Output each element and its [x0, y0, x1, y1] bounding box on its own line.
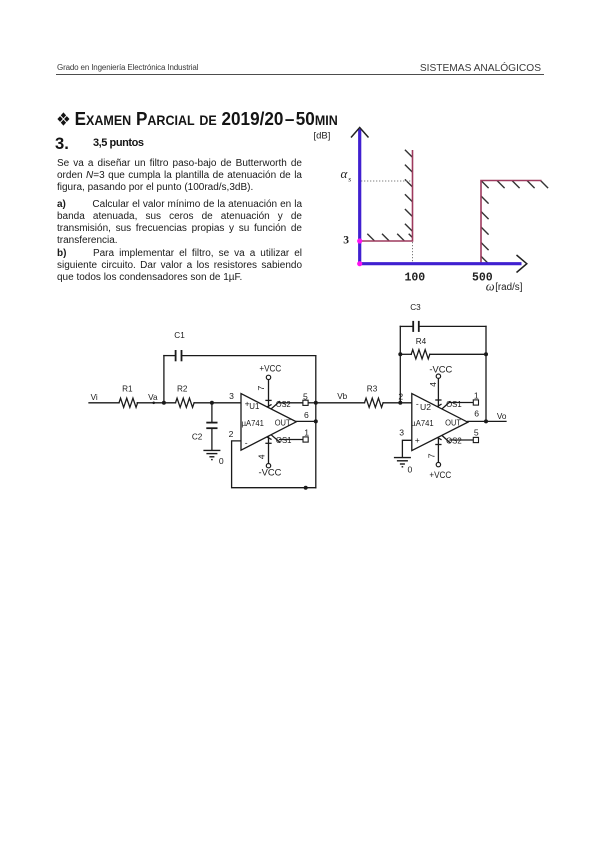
svg-text:ω: ω	[486, 279, 495, 293]
svg-text:-VCC: -VCC	[259, 468, 282, 478]
svg-text:OS2: OS2	[276, 400, 291, 409]
svg-text:7: 7	[427, 453, 437, 458]
svg-text:OS2: OS2	[446, 437, 462, 446]
svg-text:s: s	[348, 174, 351, 183]
svg-text:R3: R3	[367, 384, 378, 393]
svg-text:3: 3	[343, 234, 349, 246]
svg-text:7: 7	[256, 386, 266, 391]
svg-text:1: 1	[474, 390, 479, 400]
svg-text:α: α	[341, 166, 349, 181]
svg-text:Vb: Vb	[337, 392, 347, 401]
svg-text:C1: C1	[174, 331, 185, 340]
svg-text:4: 4	[428, 382, 438, 387]
svg-text:-: -	[245, 437, 248, 447]
svg-text:2: 2	[229, 429, 234, 439]
svg-text:R1: R1	[122, 384, 133, 393]
svg-text:OUT: OUT	[275, 418, 291, 427]
svg-text:0: 0	[408, 465, 413, 475]
svg-text:C2: C2	[192, 432, 203, 441]
svg-text:-VCC: -VCC	[429, 364, 452, 374]
svg-text:2: 2	[398, 392, 403, 402]
svg-text:+: +	[415, 435, 420, 445]
svg-text:µA741: µA741	[242, 419, 264, 428]
svg-text:R2: R2	[177, 384, 188, 393]
svg-text:OS1: OS1	[446, 400, 462, 409]
svg-text:4: 4	[256, 454, 266, 459]
svg-text:[rad/s]: [rad/s]	[495, 282, 523, 293]
svg-text:U1: U1	[249, 402, 259, 411]
svg-text:+VCC: +VCC	[429, 470, 451, 480]
svg-text:5: 5	[303, 391, 308, 401]
svg-text:5: 5	[474, 427, 479, 437]
svg-text:Vi: Vi	[91, 393, 98, 402]
svg-text:+VCC: +VCC	[259, 364, 281, 374]
svg-text:OS1: OS1	[276, 436, 292, 445]
svg-text:OUT: OUT	[445, 419, 461, 428]
svg-text:6: 6	[474, 409, 479, 419]
svg-text:Vo: Vo	[497, 412, 507, 421]
svg-text:-: -	[416, 399, 419, 409]
svg-text:R4: R4	[416, 337, 427, 346]
svg-text:100: 100	[405, 272, 426, 285]
svg-text:µA741: µA741	[411, 419, 433, 428]
svg-text:Va: Va	[148, 393, 158, 402]
svg-text:[dB]: [dB]	[314, 131, 331, 142]
svg-text:6: 6	[304, 410, 309, 420]
svg-text:U2: U2	[420, 403, 431, 412]
svg-text:3: 3	[229, 391, 234, 401]
svg-text:1: 1	[304, 427, 309, 437]
svg-text:C3: C3	[410, 303, 421, 312]
svg-text:3: 3	[399, 427, 404, 437]
svg-text:0: 0	[219, 456, 224, 466]
